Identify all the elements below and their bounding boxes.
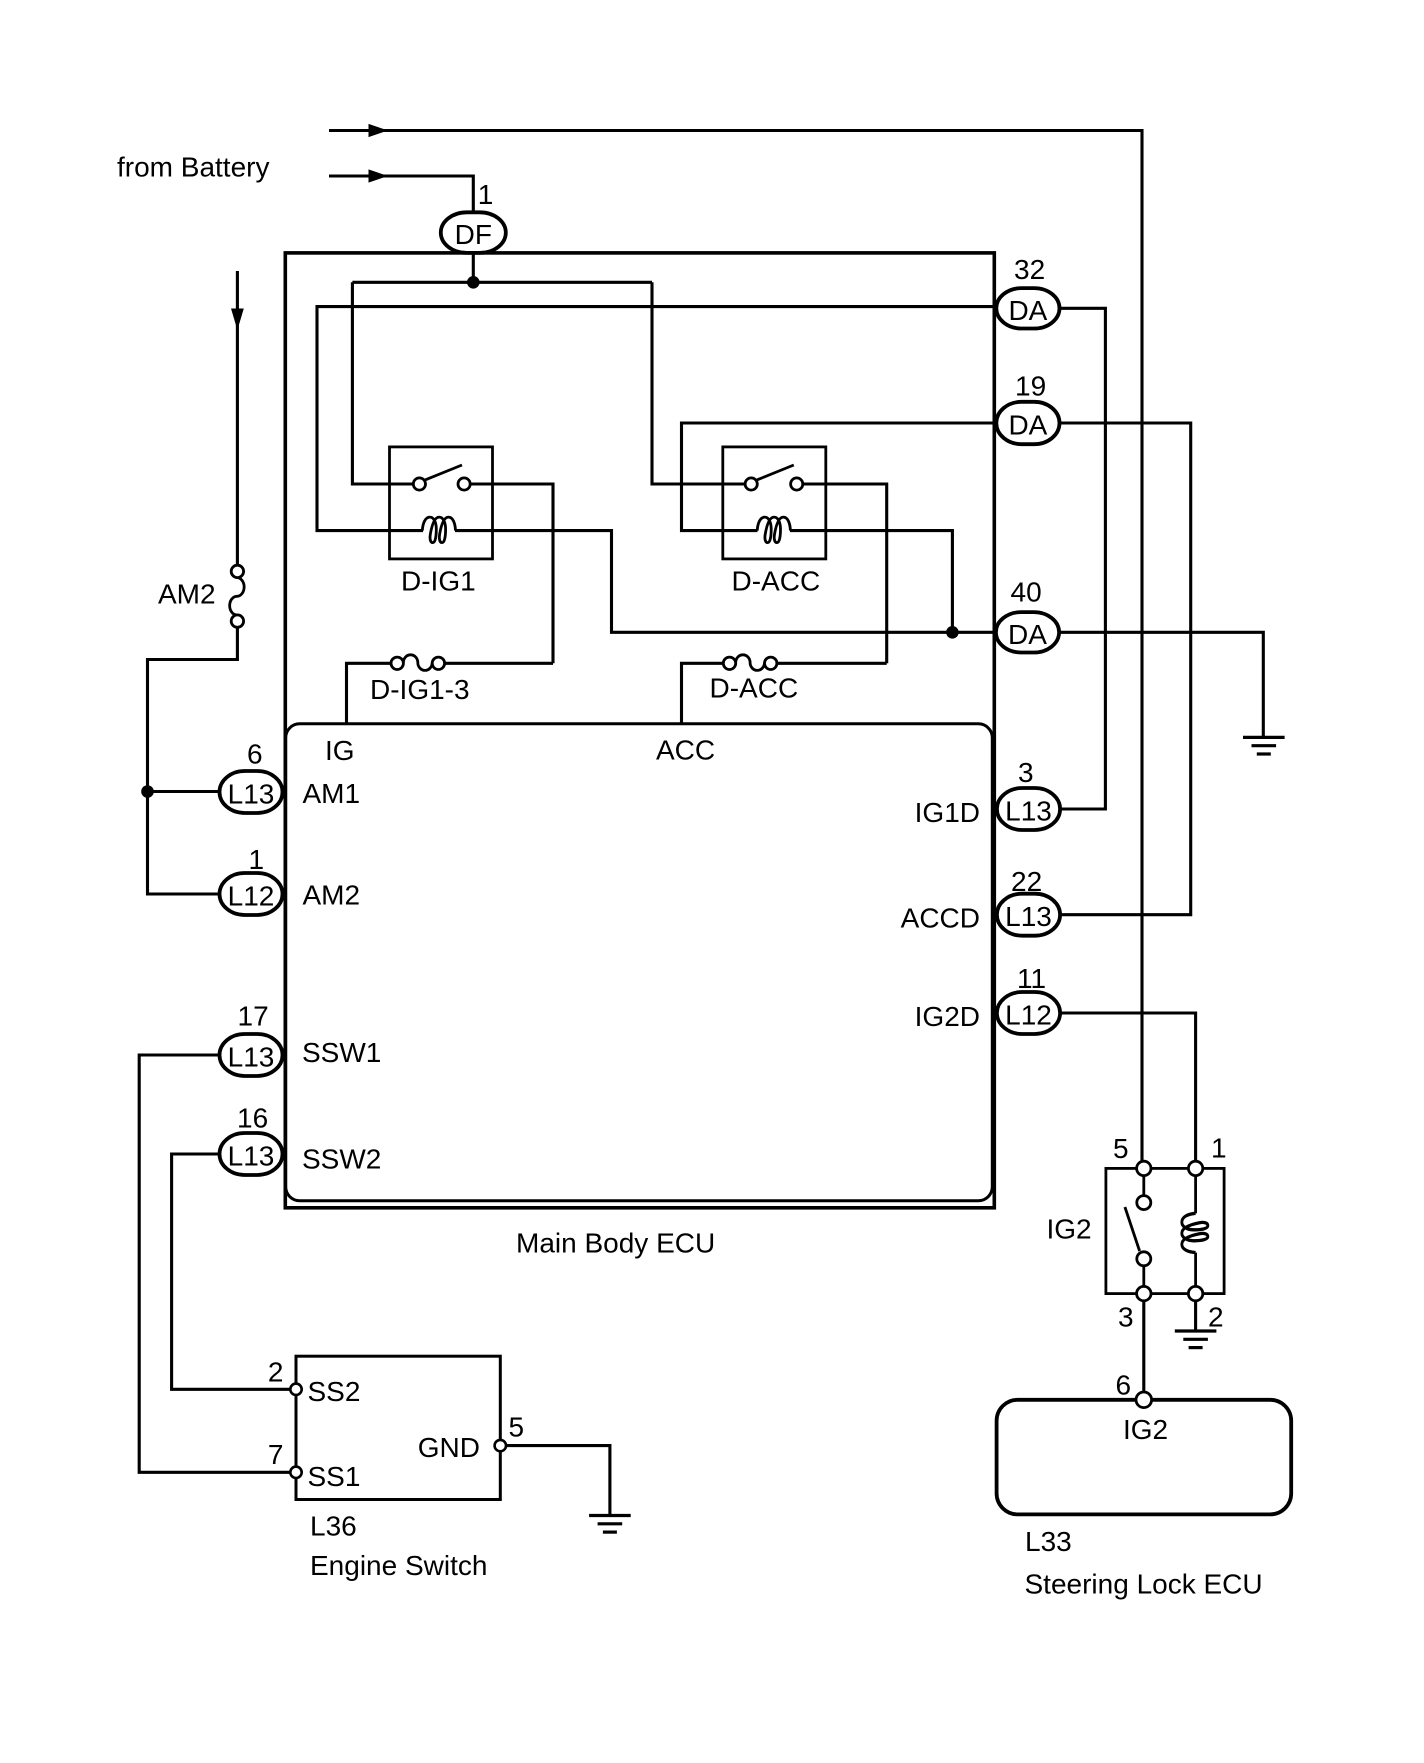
svg-text:6: 6	[1116, 1370, 1132, 1401]
svg-text:16: 16	[237, 1103, 268, 1134]
wire fuse D-IG1-3 right	[444, 662, 553, 665]
wire DA40 right to ground	[1059, 632, 1263, 736]
arrowhead AM2 branch	[231, 309, 244, 331]
wire D-IG1 coil right to DA40	[455, 531, 996, 633]
svg-text:2: 2	[1208, 1301, 1224, 1332]
svg-text:1: 1	[478, 179, 494, 210]
relay D-ACC	[723, 447, 826, 559]
svg-text:AM2: AM2	[158, 579, 216, 610]
connector DF pin 1	[441, 212, 506, 253]
svg-text:5: 5	[1113, 1133, 1129, 1164]
ground symbol below IG2 relay pin 2	[1175, 1331, 1217, 1348]
Main Body ECU inner rounded box	[286, 724, 993, 1201]
svg-text:Engine Switch: Engine Switch	[310, 1550, 487, 1581]
svg-text:3: 3	[1018, 757, 1034, 788]
svg-text:from Battery: from Battery	[117, 152, 269, 183]
pin 7 SS1	[290, 1467, 301, 1478]
svg-text:1: 1	[249, 844, 265, 875]
wire IG2D right to IG2 relay pin 1	[1061, 1013, 1196, 1162]
Engine Switch box	[296, 1356, 500, 1499]
Main Body ECU outer box	[285, 253, 994, 1208]
svg-text:L12: L12	[228, 881, 275, 912]
svg-text:32: 32	[1014, 254, 1045, 285]
fuse D-IG1-3	[391, 655, 445, 671]
svg-text:5: 5	[509, 1412, 525, 1443]
wire AM2 fuse to AM1/AM2 ovals	[148, 628, 238, 894]
svg-text:IG2: IG2	[1047, 1214, 1092, 1245]
connector L13 pin 17 SSW1	[220, 1034, 283, 1076]
svg-text:17: 17	[238, 1001, 269, 1032]
wire to D-IG1 switch	[352, 282, 413, 484]
svg-text:7: 7	[268, 1439, 284, 1470]
wire D-ACC coil right to junction	[790, 531, 952, 633]
node junction AM1	[141, 785, 154, 798]
wire SSW1 to SS1	[139, 1055, 290, 1472]
fuse AM2	[230, 565, 244, 627]
fuse D-ACC	[723, 655, 777, 671]
wire AM2 branch vertical	[236, 271, 239, 565]
ground symbol below engine switch GND	[589, 1516, 631, 1533]
svg-text:40: 40	[1011, 577, 1042, 608]
svg-text:IG2D: IG2D	[915, 1001, 980, 1032]
connector L12 pin 11 IG2D	[997, 992, 1060, 1034]
svg-text:SS1: SS1	[308, 1461, 361, 1492]
node junction DA40	[946, 626, 959, 639]
connector DA pin 19	[996, 402, 1059, 444]
wire D-ACC switch out to fuse	[803, 484, 887, 663]
svg-text:DA: DA	[1008, 619, 1047, 650]
connector DA pin 32	[996, 288, 1059, 328]
svg-text:D-ACC: D-ACC	[710, 673, 799, 704]
relay IG2	[1106, 1161, 1224, 1301]
svg-text:D-ACC: D-ACC	[732, 566, 821, 597]
svg-text:Main Body ECU: Main Body ECU	[516, 1228, 715, 1259]
svg-text:L33: L33	[1025, 1526, 1072, 1557]
svg-text:D-IG1: D-IG1	[401, 566, 476, 597]
svg-text:11: 11	[1017, 963, 1046, 994]
svg-text:DF: DF	[455, 219, 492, 250]
svg-text:IG: IG	[325, 735, 355, 766]
node junction under DF	[467, 276, 480, 289]
svg-text:22: 22	[1011, 866, 1042, 897]
svg-text:AM1: AM1	[303, 778, 361, 809]
wire junction to AM1	[148, 790, 220, 793]
pin 5 GND	[495, 1440, 506, 1451]
wire fuse D-ACC right	[777, 662, 887, 665]
wire fuse D-IG1-3 left to IG pin	[347, 663, 392, 724]
svg-text:1: 1	[1211, 1133, 1227, 1164]
ground symbol below DA40	[1243, 737, 1285, 754]
svg-text:Steering Lock ECU: Steering Lock ECU	[1025, 1569, 1263, 1600]
wire IG2 relay pin 3 to steering lock ECU pin 6	[1142, 1301, 1145, 1393]
svg-text:2: 2	[268, 1356, 284, 1387]
svg-text:IG1D: IG1D	[915, 797, 980, 828]
svg-text:ACCD: ACCD	[901, 903, 980, 934]
svg-text:SSW2: SSW2	[302, 1144, 381, 1175]
svg-text:AM2: AM2	[303, 880, 361, 911]
pin 2 SS2	[290, 1384, 301, 1395]
wire D-IG1 switch out to fuse	[470, 484, 553, 663]
wire to D-ACC switch	[652, 282, 745, 484]
pin 6 steering lock ECU	[1136, 1392, 1152, 1408]
svg-text:6: 6	[247, 739, 263, 770]
svg-text:L13: L13	[228, 779, 275, 810]
arrowhead battery feed 2	[369, 169, 389, 182]
connector L13 pin 16 SSW2	[220, 1133, 283, 1175]
svg-text:D-IG1-3: D-IG1-3	[370, 674, 470, 705]
svg-text:SSW1: SSW1	[302, 1037, 381, 1068]
wire fuse D-ACC left to ACC pin	[682, 663, 724, 724]
connector L13 pin 22 ACCD	[997, 894, 1060, 936]
svg-text:L13: L13	[228, 1141, 275, 1172]
svg-text:SS2: SS2	[308, 1376, 361, 1407]
connector L13 pin 3 IG1D	[997, 788, 1060, 830]
wire GND pin to ground	[506, 1446, 610, 1514]
svg-text:L13: L13	[1005, 796, 1052, 827]
connector L13 pin 6 AM1	[220, 771, 283, 813]
connector DA pin 40	[996, 612, 1059, 652]
svg-text:19: 19	[1015, 371, 1046, 402]
svg-text:3: 3	[1118, 1301, 1134, 1332]
svg-text:L13: L13	[1005, 901, 1052, 932]
svg-text:L36: L36	[310, 1511, 357, 1542]
wire battery feed 2	[329, 176, 473, 213]
svg-text:DA: DA	[1008, 410, 1047, 441]
wire DA19 right to ACCD	[1060, 423, 1191, 915]
svg-text:L13: L13	[228, 1042, 275, 1073]
connector L12 pin 1 AM2	[220, 873, 283, 915]
arrowhead battery feed 1	[369, 124, 389, 137]
wire DA32 to D-IG1 coil	[317, 307, 995, 531]
svg-text:ACC: ACC	[656, 735, 715, 766]
wire battery feed 1	[329, 131, 1142, 1162]
wire SSW2 to SS2	[172, 1154, 291, 1389]
svg-text:IG2: IG2	[1123, 1414, 1168, 1445]
svg-text:L12: L12	[1005, 1000, 1052, 1031]
wire DA19 to D-ACC coil	[682, 423, 996, 531]
wire DA32 right to IG1D	[1060, 308, 1106, 809]
wire IG2 relay pin 2 to ground	[1194, 1301, 1197, 1330]
Steering Lock ECU box	[997, 1400, 1292, 1515]
svg-text:GND: GND	[418, 1432, 480, 1463]
svg-text:DA: DA	[1008, 295, 1047, 326]
relay D-IG1	[390, 447, 493, 559]
wire DF to junction	[472, 253, 475, 282]
wire junction horizontal	[352, 281, 652, 284]
